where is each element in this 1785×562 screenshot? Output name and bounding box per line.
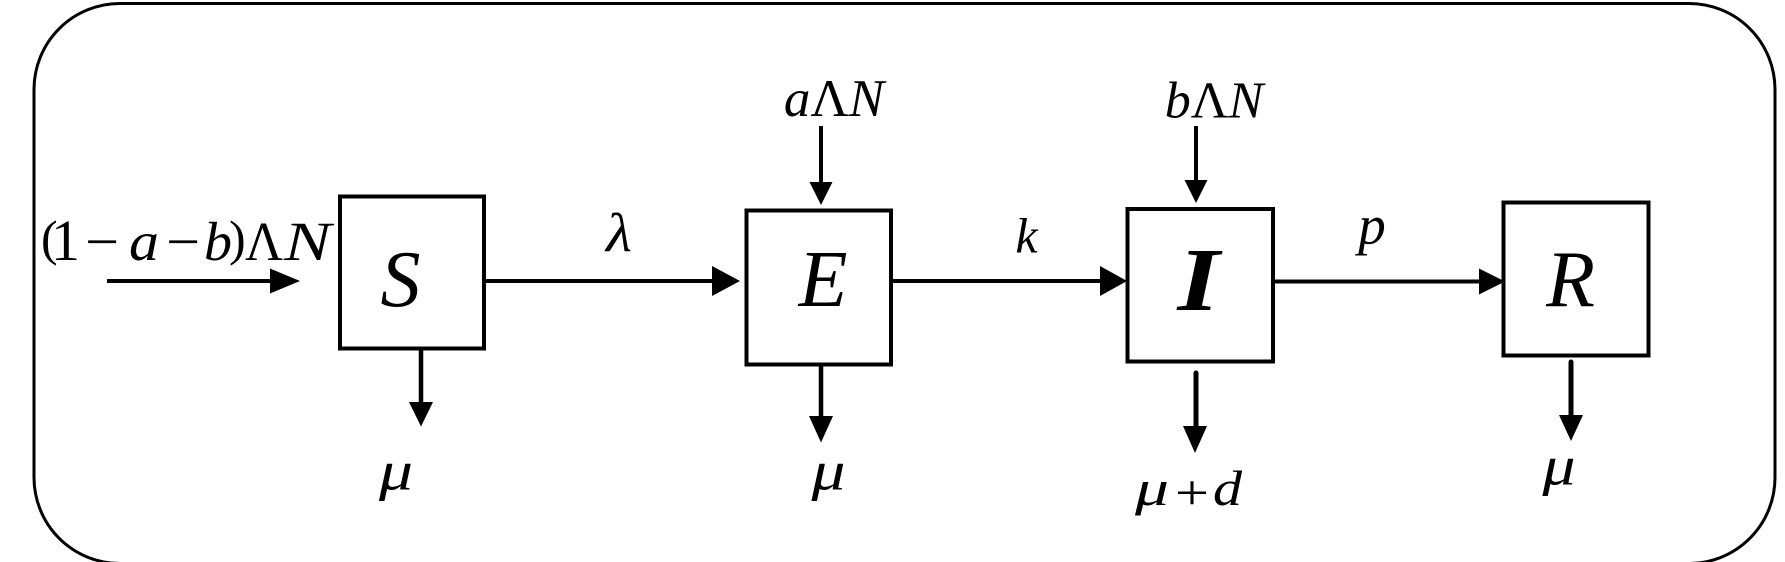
box I xyxy=(1128,209,1274,362)
arrow E down to mu xyxy=(809,365,833,443)
arrow bLambdaN into I xyxy=(1185,126,1208,203)
svg-text:μ: μ xyxy=(1541,436,1575,497)
svg-text:−: − xyxy=(85,211,119,272)
box S xyxy=(340,197,484,349)
box E xyxy=(747,211,892,365)
arrow R down to mu xyxy=(1559,362,1583,441)
svg-text:R: R xyxy=(1545,236,1595,324)
arrow S down to mu xyxy=(409,349,433,427)
arrow aLambdaN into E xyxy=(810,126,833,205)
svg-text:b: b xyxy=(204,211,232,272)
svg-text:μ: μ xyxy=(810,441,845,502)
svg-text:N: N xyxy=(283,211,336,272)
arrow I down to mu+d xyxy=(1183,373,1207,453)
svg-text:p: p xyxy=(1354,195,1386,256)
svg-text:I: I xyxy=(1176,231,1223,330)
box R xyxy=(1504,203,1649,356)
svg-text:bΛN: bΛN xyxy=(1165,73,1267,130)
arrow into S xyxy=(107,269,300,294)
arrow I to R xyxy=(1273,269,1505,295)
label mu+d under I xyxy=(1134,460,1244,521)
svg-text:1: 1 xyxy=(51,208,80,273)
svg-text:S: S xyxy=(381,236,421,324)
svg-text:E: E xyxy=(798,236,848,324)
svg-text:): ) xyxy=(229,210,246,266)
svg-text:μ: μ xyxy=(1134,460,1169,516)
arrow E to I xyxy=(891,266,1127,296)
svg-text:a: a xyxy=(129,211,159,272)
svg-text:μ: μ xyxy=(378,441,413,502)
svg-text:aΛN: aΛN xyxy=(784,70,887,128)
svg-text:Λ: Λ xyxy=(245,211,283,272)
svg-text:+: + xyxy=(1175,465,1209,521)
svg-text:λ: λ xyxy=(604,202,632,263)
svg-text:d: d xyxy=(1213,460,1243,516)
svg-text:−: − xyxy=(166,211,200,272)
label (1-a-b)LambdaN xyxy=(41,208,335,273)
svg-text:k: k xyxy=(1015,208,1038,264)
arrow S to E xyxy=(484,266,740,296)
